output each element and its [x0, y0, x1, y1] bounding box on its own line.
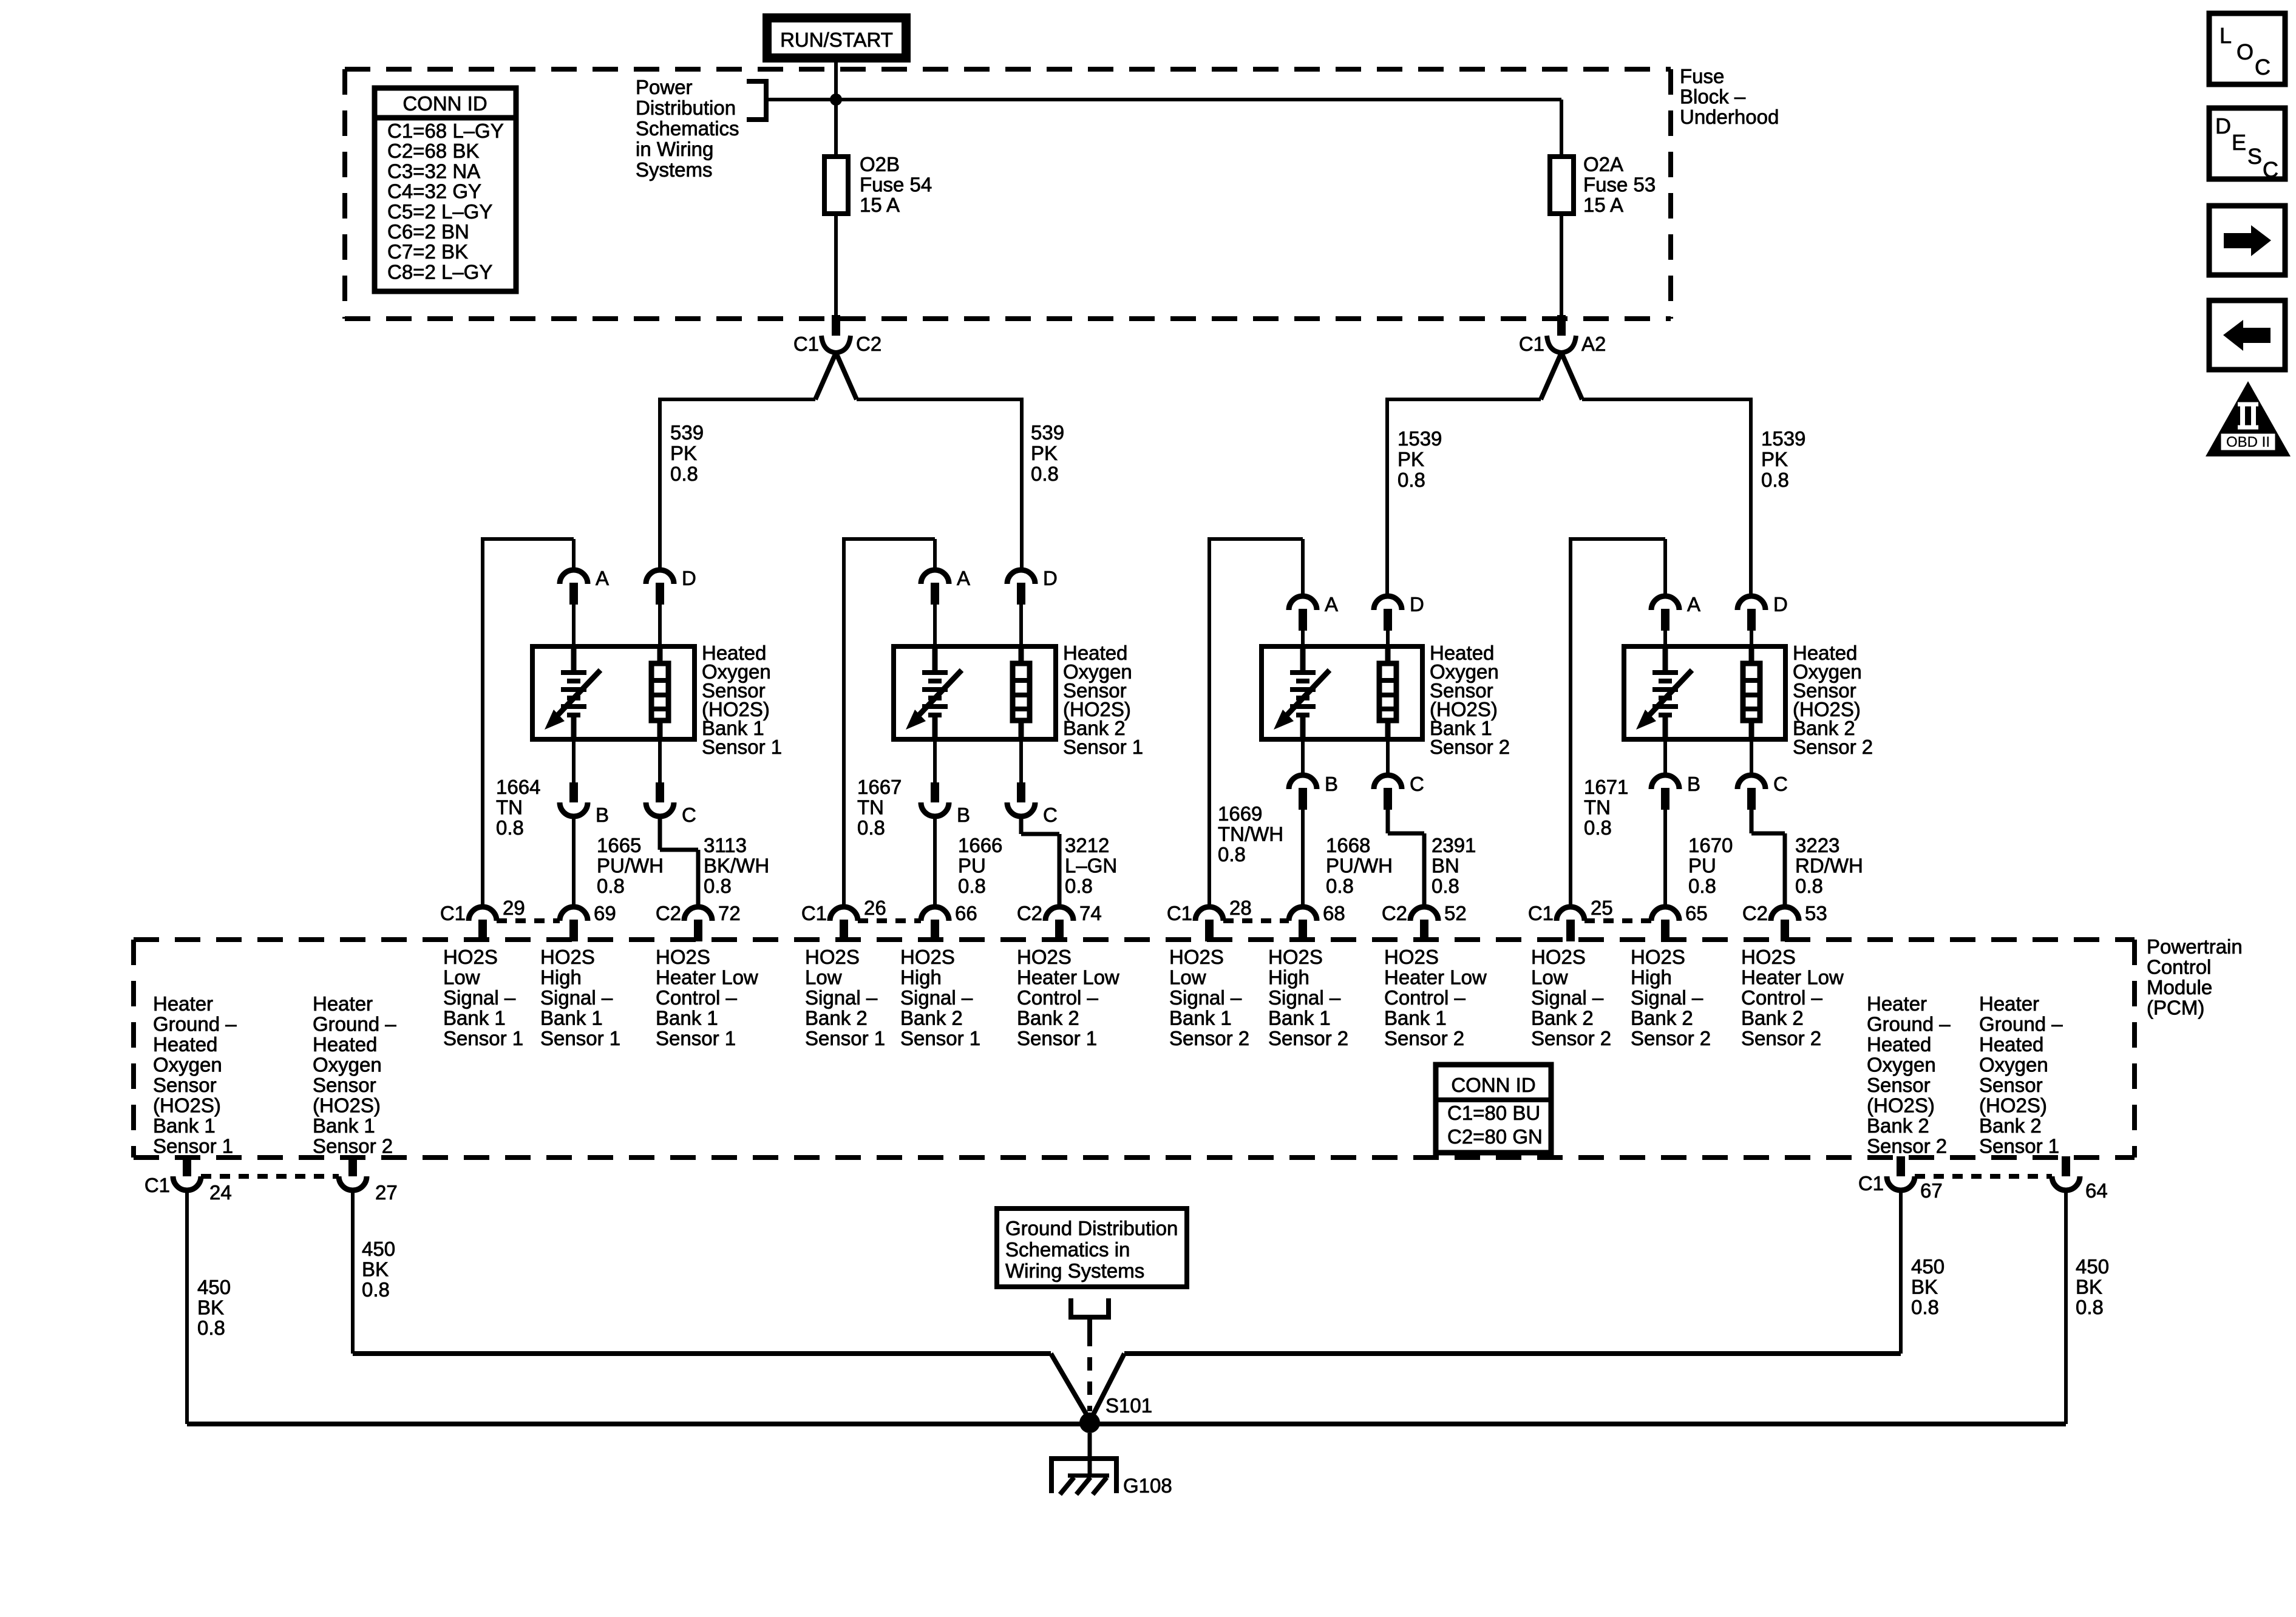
svg-text:Bank 2: Bank 2: [1017, 1007, 1079, 1029]
svg-text:High: High: [1268, 966, 1309, 989]
svg-text:Control –: Control –: [1017, 986, 1099, 1009]
svg-text:(HO2S): (HO2S): [1867, 1094, 1935, 1117]
svg-text:0.8: 0.8: [496, 816, 524, 839]
svg-text:Control –: Control –: [656, 986, 738, 1009]
svg-text:Sensor 1: Sensor 1: [153, 1135, 233, 1158]
svg-text:PU/WH: PU/WH: [1326, 855, 1393, 877]
svg-text:0.8: 0.8: [1218, 843, 1246, 866]
svg-text:67: 67: [1920, 1179, 1943, 1202]
svg-text:1665: 1665: [597, 834, 641, 856]
svg-text:D: D: [1043, 567, 1058, 589]
svg-text:Ground –: Ground –: [153, 1013, 237, 1036]
svg-text:C5=2 L–GY: C5=2 L–GY: [387, 200, 492, 223]
svg-text:O2A: O2A: [1583, 153, 1623, 175]
svg-text:HO2S: HO2S: [1531, 946, 1586, 968]
svg-text:TN: TN: [857, 796, 884, 819]
svg-text:CONN ID: CONN ID: [402, 92, 487, 115]
svg-text:15 A: 15 A: [1583, 194, 1623, 216]
svg-text:Bank 1: Bank 1: [1268, 1007, 1331, 1029]
svg-text:26: 26: [864, 897, 886, 919]
svg-text:CONN ID: CONN ID: [1451, 1074, 1535, 1096]
svg-text:L–GN: L–GN: [1065, 855, 1117, 877]
svg-text:Heater Low: Heater Low: [1741, 966, 1844, 989]
svg-text:G108: G108: [1123, 1474, 1172, 1497]
svg-text:C2: C2: [1017, 902, 1042, 924]
svg-text:Wiring Systems: Wiring Systems: [1005, 1259, 1144, 1282]
svg-text:1539: 1539: [1761, 427, 1805, 450]
svg-text:C1: C1: [1519, 333, 1544, 355]
svg-text:C3=32 NA: C3=32 NA: [387, 160, 480, 182]
svg-text:A: A: [1687, 593, 1700, 615]
svg-text:Sensor 2: Sensor 2: [1741, 1027, 1821, 1049]
svg-text:S: S: [2247, 144, 2262, 169]
svg-text:Signal –: Signal –: [1531, 986, 1604, 1009]
svg-text:B: B: [957, 804, 970, 826]
svg-text:C: C: [1043, 804, 1058, 826]
svg-text:B: B: [1687, 773, 1700, 795]
svg-text:Signal –: Signal –: [1631, 986, 1703, 1009]
svg-text:HO2S: HO2S: [1384, 946, 1439, 968]
svg-text:TN: TN: [1584, 796, 1611, 819]
svg-text:HO2S: HO2S: [1631, 946, 1685, 968]
svg-text:Bank 1: Bank 1: [656, 1007, 718, 1029]
svg-text:1670: 1670: [1688, 834, 1733, 856]
svg-text:Bank 1: Bank 1: [1384, 1007, 1447, 1029]
svg-text:C2: C2: [1382, 902, 1407, 924]
svg-text:C1: C1: [801, 902, 827, 924]
svg-text:Sensor: Sensor: [153, 1074, 217, 1096]
svg-text:0.8: 0.8: [362, 1278, 390, 1301]
svg-text:HO2S: HO2S: [1169, 946, 1224, 968]
svg-text:Signal –: Signal –: [1268, 986, 1341, 1009]
svg-text:High: High: [1631, 966, 1672, 989]
svg-text:PK: PK: [1398, 448, 1424, 470]
svg-text:Ground –: Ground –: [1979, 1013, 2063, 1036]
svg-text:0.8: 0.8: [1432, 875, 1459, 897]
svg-text:O2B: O2B: [860, 153, 900, 175]
svg-text:PU: PU: [1688, 855, 1716, 877]
svg-text:Schematics in: Schematics in: [1005, 1238, 1130, 1261]
svg-text:Distribution: Distribution: [636, 97, 736, 119]
svg-text:Sensor: Sensor: [1979, 1074, 2043, 1096]
svg-text:High: High: [540, 966, 582, 989]
svg-text:450: 450: [197, 1276, 231, 1298]
svg-text:PK: PK: [1031, 442, 1058, 464]
svg-text:RUN/START: RUN/START: [780, 29, 893, 51]
svg-text:C1: C1: [440, 902, 466, 924]
svg-text:69: 69: [594, 902, 616, 924]
svg-text:Control –: Control –: [1384, 986, 1466, 1009]
svg-text:Control –: Control –: [1741, 986, 1823, 1009]
svg-text:0.8: 0.8: [704, 875, 732, 897]
svg-text:Sensor 2: Sensor 2: [1430, 736, 1510, 758]
svg-text:D: D: [1773, 593, 1788, 615]
svg-text:Sensor 1: Sensor 1: [656, 1027, 736, 1049]
svg-text:Heater Low: Heater Low: [1017, 966, 1119, 989]
svg-text:66: 66: [955, 902, 977, 924]
svg-text:A: A: [1325, 593, 1338, 615]
svg-text:3212: 3212: [1065, 834, 1109, 856]
svg-text:HO2S: HO2S: [900, 946, 955, 968]
svg-text:BK: BK: [362, 1258, 389, 1281]
svg-text:72: 72: [718, 902, 741, 924]
svg-text:A: A: [596, 567, 609, 589]
svg-text:Heater: Heater: [313, 992, 373, 1015]
svg-text:Underhood: Underhood: [1680, 106, 1779, 128]
svg-text:C1=80 BU: C1=80 BU: [1447, 1102, 1540, 1124]
svg-text:1668: 1668: [1326, 834, 1370, 856]
svg-text:53: 53: [1805, 902, 1827, 924]
svg-text:HO2S: HO2S: [443, 946, 498, 968]
svg-text:C2=68 BK: C2=68 BK: [387, 140, 479, 162]
svg-text:Sensor 2: Sensor 2: [1867, 1135, 1947, 1158]
svg-text:Bank 1: Bank 1: [443, 1007, 506, 1029]
svg-text:0.8: 0.8: [1031, 463, 1059, 485]
svg-text:Sensor 2: Sensor 2: [1268, 1027, 1348, 1049]
svg-text:Bank 2: Bank 2: [1867, 1114, 1929, 1137]
svg-text:Heater: Heater: [1979, 992, 2039, 1015]
svg-text:Ground –: Ground –: [1867, 1013, 1951, 1036]
svg-text:Power: Power: [636, 76, 693, 98]
svg-text:TN: TN: [496, 796, 523, 819]
svg-text:C6=2 BN: C6=2 BN: [387, 220, 469, 243]
svg-text:450: 450: [362, 1238, 395, 1260]
svg-text:Systems: Systems: [636, 158, 713, 181]
svg-text:C: C: [682, 804, 696, 826]
svg-text:C1: C1: [1858, 1172, 1884, 1195]
svg-text:0.8: 0.8: [1761, 469, 1789, 491]
svg-text:27: 27: [375, 1181, 398, 1204]
svg-text:C2: C2: [1742, 902, 1768, 924]
svg-text:0.8: 0.8: [597, 875, 625, 897]
svg-text:C: C: [1773, 773, 1788, 795]
svg-text:Signal –: Signal –: [805, 986, 878, 1009]
svg-text:A: A: [957, 567, 970, 589]
svg-text:C1: C1: [793, 333, 819, 355]
svg-text:0.8: 0.8: [670, 463, 698, 485]
svg-text:Heated: Heated: [313, 1033, 377, 1056]
svg-text:C: C: [2263, 157, 2278, 182]
svg-text:Bank 2: Bank 2: [1979, 1114, 2042, 1137]
svg-text:Sensor 2: Sensor 2: [1631, 1027, 1711, 1049]
svg-text:BK: BK: [197, 1297, 224, 1319]
svg-text:1669: 1669: [1218, 802, 1262, 825]
svg-text:Bank 2: Bank 2: [900, 1007, 963, 1029]
svg-text:Fuse 53: Fuse 53: [1583, 174, 1656, 196]
svg-text:68: 68: [1323, 902, 1345, 924]
svg-text:Oxygen: Oxygen: [1867, 1054, 1936, 1076]
svg-text:Signal –: Signal –: [443, 986, 516, 1009]
svg-text:D: D: [2215, 114, 2231, 138]
svg-text:B: B: [1325, 773, 1338, 795]
svg-text:0.8: 0.8: [1065, 875, 1093, 897]
svg-text:Sensor: Sensor: [1867, 1074, 1931, 1096]
svg-text:Low: Low: [1531, 966, 1568, 989]
svg-text:0.8: 0.8: [1688, 875, 1716, 897]
svg-text:Sensor 2: Sensor 2: [1793, 736, 1873, 758]
svg-text:HO2S: HO2S: [540, 946, 595, 968]
svg-text:2391: 2391: [1432, 834, 1476, 856]
svg-text:Control: Control: [2147, 956, 2211, 978]
svg-text:3113: 3113: [704, 834, 747, 856]
svg-text:HO2S: HO2S: [1741, 946, 1796, 968]
svg-text:Sensor: Sensor: [313, 1074, 376, 1096]
svg-text:Fuse 54: Fuse 54: [860, 174, 932, 196]
svg-text:0.8: 0.8: [1326, 875, 1354, 897]
svg-text:in Wiring: in Wiring: [636, 138, 713, 160]
svg-text:1671: 1671: [1584, 776, 1628, 798]
svg-text:(HO2S): (HO2S): [153, 1094, 221, 1117]
svg-text:0.8: 0.8: [958, 875, 986, 897]
svg-text:(HO2S): (HO2S): [313, 1094, 381, 1117]
svg-text:Signal –: Signal –: [1169, 986, 1242, 1009]
svg-text:PK: PK: [670, 442, 697, 464]
svg-text:Block –: Block –: [1680, 86, 1746, 108]
svg-text:Sensor 2: Sensor 2: [1384, 1027, 1464, 1049]
svg-text:28: 28: [1229, 897, 1252, 919]
svg-text:Bank 2: Bank 2: [1531, 1007, 1594, 1029]
svg-text:Oxygen: Oxygen: [313, 1054, 382, 1076]
svg-text:C1: C1: [144, 1174, 170, 1196]
svg-text:Module: Module: [2147, 976, 2212, 998]
svg-text:0.8: 0.8: [1911, 1296, 1939, 1318]
svg-text:15 A: 15 A: [860, 194, 900, 216]
svg-text:PU: PU: [958, 855, 986, 877]
svg-text:0.8: 0.8: [1584, 816, 1612, 839]
svg-text:Sensor 1: Sensor 1: [1979, 1135, 2059, 1158]
svg-text:Oxygen: Oxygen: [153, 1054, 222, 1076]
svg-text:0.8: 0.8: [1795, 875, 1823, 897]
svg-text:Sensor 1: Sensor 1: [805, 1027, 885, 1049]
svg-text:0.8: 0.8: [197, 1317, 225, 1339]
svg-text:RD/WH: RD/WH: [1795, 855, 1863, 877]
svg-text:Heated: Heated: [1979, 1033, 2043, 1056]
svg-text:Heater: Heater: [1867, 992, 1927, 1015]
svg-text:C4=32 GY: C4=32 GY: [387, 180, 481, 203]
svg-text:0.8: 0.8: [857, 816, 885, 839]
svg-text:Sensor 2: Sensor 2: [1531, 1027, 1611, 1049]
svg-text:C: C: [2255, 55, 2271, 80]
svg-text:BK: BK: [1911, 1276, 1938, 1298]
svg-text:PU/WH: PU/WH: [597, 855, 664, 877]
svg-text:C1: C1: [1167, 902, 1192, 924]
svg-text:Bank 1: Bank 1: [1169, 1007, 1232, 1029]
svg-text:Heated: Heated: [1867, 1033, 1931, 1056]
svg-text:C2: C2: [856, 333, 881, 355]
svg-text:52: 52: [1444, 902, 1467, 924]
svg-text:3223: 3223: [1795, 834, 1839, 856]
svg-text:1664: 1664: [496, 776, 540, 798]
svg-text:450: 450: [2076, 1255, 2109, 1278]
svg-text:Powertrain: Powertrain: [2147, 935, 2243, 958]
svg-text:Bank 1: Bank 1: [313, 1114, 375, 1137]
svg-text:High: High: [900, 966, 942, 989]
svg-text:Low: Low: [805, 966, 842, 989]
svg-text:Bank 1: Bank 1: [540, 1007, 603, 1029]
svg-text:Heated: Heated: [153, 1033, 217, 1056]
svg-text:Bank 2: Bank 2: [1631, 1007, 1693, 1029]
svg-text:HO2S: HO2S: [805, 946, 860, 968]
svg-text:C: C: [1410, 773, 1424, 795]
svg-text:Sensor 1: Sensor 1: [540, 1027, 620, 1049]
svg-text:24: 24: [209, 1181, 232, 1204]
svg-text:Heater: Heater: [153, 992, 213, 1015]
svg-text:HO2S: HO2S: [1017, 946, 1072, 968]
svg-text:(HO2S): (HO2S): [1979, 1094, 2047, 1117]
svg-text:L: L: [2220, 23, 2232, 48]
svg-text:PK: PK: [1761, 448, 1788, 470]
svg-text:C8=2 L–GY: C8=2 L–GY: [387, 260, 492, 283]
svg-text:Signal –: Signal –: [900, 986, 973, 1009]
svg-text:E: E: [2232, 130, 2246, 155]
svg-text:BK: BK: [2076, 1276, 2102, 1298]
svg-text:Sensor 2: Sensor 2: [1169, 1027, 1249, 1049]
svg-text:64: 64: [2085, 1179, 2108, 1202]
svg-text:BK/WH: BK/WH: [704, 855, 769, 877]
svg-text:C1: C1: [1528, 902, 1554, 924]
svg-text:Bank 1: Bank 1: [153, 1114, 216, 1137]
svg-text:Bank 2: Bank 2: [805, 1007, 868, 1029]
svg-text:C2=80 GN: C2=80 GN: [1447, 1125, 1543, 1148]
svg-text:B: B: [596, 804, 609, 826]
svg-text:0.8: 0.8: [2076, 1296, 2104, 1318]
svg-text:Oxygen: Oxygen: [1979, 1054, 2048, 1076]
svg-text:C2: C2: [656, 902, 681, 924]
svg-text:TN/WH: TN/WH: [1218, 823, 1283, 846]
svg-text:1667: 1667: [857, 776, 902, 798]
svg-text:BN: BN: [1432, 855, 1459, 877]
svg-text:Bank 2: Bank 2: [1741, 1007, 1804, 1029]
svg-text:HO2S: HO2S: [1268, 946, 1323, 968]
svg-text:A2: A2: [1581, 333, 1606, 355]
svg-text:0.8: 0.8: [1398, 469, 1425, 491]
svg-text:25: 25: [1591, 897, 1613, 919]
svg-text:Heater Low: Heater Low: [656, 966, 758, 989]
svg-text:Fuse: Fuse: [1680, 65, 1724, 87]
svg-text:S101: S101: [1106, 1394, 1152, 1417]
svg-text:O: O: [2237, 39, 2254, 64]
svg-text:Sensor 2: Sensor 2: [313, 1135, 393, 1158]
svg-text:Sensor 1: Sensor 1: [900, 1027, 980, 1049]
svg-text:74: 74: [1079, 902, 1102, 924]
svg-text:C7=2 BK: C7=2 BK: [387, 240, 468, 263]
svg-text:D: D: [682, 567, 696, 589]
svg-text:Sensor 1: Sensor 1: [1017, 1027, 1097, 1049]
svg-text:C1=68 L–GY: C1=68 L–GY: [387, 120, 504, 142]
svg-text:539: 539: [1031, 421, 1064, 444]
svg-text:(PCM): (PCM): [2147, 997, 2204, 1019]
svg-text:D: D: [1410, 593, 1424, 615]
svg-text:Schematics: Schematics: [636, 117, 739, 140]
svg-text:Sensor 1: Sensor 1: [702, 736, 782, 758]
svg-text:HO2S: HO2S: [656, 946, 710, 968]
svg-text:539: 539: [670, 421, 704, 444]
svg-text:Sensor 1: Sensor 1: [443, 1027, 523, 1049]
svg-text:450: 450: [1911, 1255, 1944, 1278]
svg-text:Signal –: Signal –: [540, 986, 613, 1009]
svg-text:Ground Distribution: Ground Distribution: [1005, 1217, 1178, 1239]
svg-text:OBD II: OBD II: [2226, 434, 2270, 450]
svg-text:1666: 1666: [958, 834, 1002, 856]
svg-text:65: 65: [1685, 902, 1708, 924]
svg-text:Sensor 1: Sensor 1: [1063, 736, 1143, 758]
svg-text:1539: 1539: [1398, 427, 1442, 450]
svg-text:Heater Low: Heater Low: [1384, 966, 1487, 989]
svg-text:Ground –: Ground –: [313, 1013, 396, 1036]
svg-text:29: 29: [503, 897, 525, 919]
svg-text:Low: Low: [1169, 966, 1206, 989]
svg-text:Low: Low: [443, 966, 480, 989]
